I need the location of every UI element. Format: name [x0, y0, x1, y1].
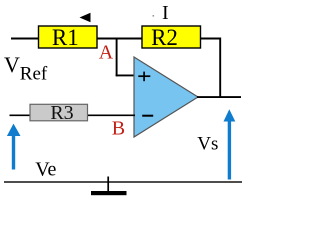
svg-text:Ref: Ref — [20, 64, 48, 85]
wire R1 to R2 — [97, 38, 142, 40]
ground — [91, 177, 127, 196]
svg-text:V: V — [4, 52, 20, 77]
ground rail — [4, 181, 242, 183]
Vref label — [4, 52, 48, 85]
small dot left of I — [153, 15, 155, 17]
svg-text:Ve: Ve — [35, 158, 56, 180]
Ve arrow (blue, up) — [7, 124, 21, 170]
svg-text:B: B — [112, 118, 125, 140]
svg-text:R2: R2 — [151, 25, 178, 50]
svg-text:R1: R1 — [52, 25, 79, 50]
wire node A vertical to + input — [116, 38, 118, 77]
wire R3 to - input — [88, 114, 135, 116]
output wire — [197, 96, 241, 98]
current direction arrow above R1 — [80, 13, 91, 22]
wire Vref to R1 — [11, 38, 39, 40]
plus sign — [138, 72, 150, 82]
svg-text:I: I — [162, 2, 169, 24]
wire Ve to R3 — [10, 114, 31, 116]
svg-text:Vs: Vs — [197, 133, 218, 154]
minus sign — [142, 115, 153, 117]
wire to + input — [116, 74, 135, 76]
wire R2 right — [201, 39, 221, 98]
svg-text:R3: R3 — [50, 102, 73, 124]
resistor R3 — [30, 102, 88, 124]
op-amp U1 — [134, 57, 198, 137]
svg-text:A: A — [99, 42, 114, 64]
resistor R2 — [142, 25, 201, 50]
resistor R1 — [39, 25, 98, 50]
Vs arrow (blue, up) — [224, 109, 236, 179]
